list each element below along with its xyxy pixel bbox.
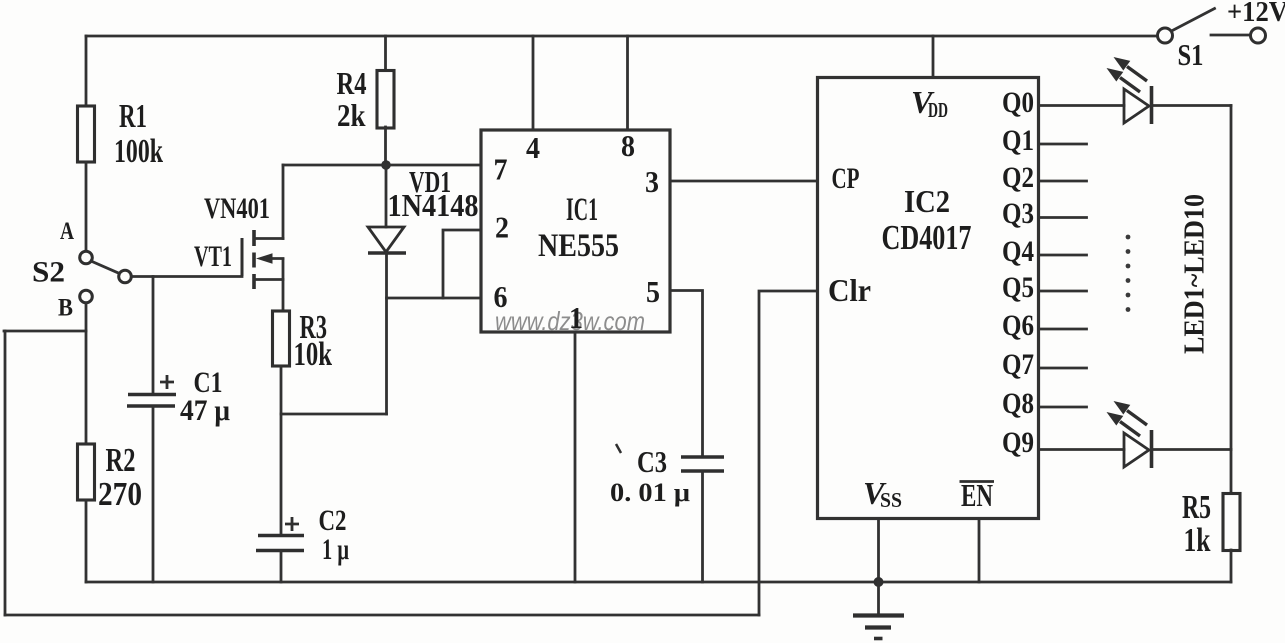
svg-text:Q4: Q4	[1002, 235, 1034, 268]
ground	[877, 582, 880, 614]
svg-text:1N4148: 1N4148	[388, 187, 479, 223]
svg-text:S2: S2	[32, 256, 65, 289]
resistor R4	[377, 71, 394, 129]
svg-text:270: 270	[98, 476, 142, 513]
wire Q4 stub	[1039, 254, 1087, 257]
svg-text:Q0: Q0	[1002, 86, 1034, 119]
wire right rail	[1230, 106, 1233, 450]
wire pin 6 line	[387, 297, 482, 300]
svg-text:R4: R4	[337, 65, 367, 101]
wire R3/VD1 branch	[281, 413, 387, 416]
svg-text:R5: R5	[1182, 489, 1211, 526]
svg-text:R2: R2	[106, 442, 136, 479]
wire R1 top lead	[85, 36, 88, 106]
svg-text:Q6: Q6	[1002, 309, 1034, 342]
wire R4 bottom to node	[384, 127, 387, 165]
wire VSS lead	[877, 519, 880, 583]
node A	[80, 251, 93, 264]
svg-text:2: 2	[495, 210, 509, 245]
switch S2 lever	[91, 261, 120, 274]
wire Clr riser	[759, 291, 818, 615]
wire pin 5 to C3	[670, 291, 703, 458]
LED1	[1107, 57, 1152, 124]
wire LED1 to right rail	[1152, 104, 1232, 107]
wire B branch left	[4, 330, 86, 333]
wire S2 pole to gate	[131, 275, 242, 278]
svg-text:1 μ: 1 μ	[322, 533, 349, 566]
wire R5 bottom	[1230, 550, 1233, 582]
wire top +12V rail	[86, 35, 1157, 38]
wire B stem down	[85, 303, 88, 444]
IC1 NE555 box	[481, 130, 670, 332]
resistor R1	[78, 106, 95, 162]
wire pin 2 stub	[443, 230, 481, 298]
wire ground rail	[86, 581, 1231, 584]
svg-text:DD: DD	[928, 98, 948, 122]
resistor R3	[273, 311, 290, 366]
svg-text:Q2: Q2	[1002, 161, 1034, 194]
wire left rail down	[4, 331, 7, 615]
svg-text:R1: R1	[119, 98, 147, 135]
svg-text:8: 8	[621, 128, 635, 163]
wire pin 7 line	[283, 164, 481, 167]
wire R1 to switch A	[85, 162, 88, 251]
svg-text:2k: 2k	[337, 97, 366, 133]
capacitor C2	[258, 534, 304, 538]
wire pin 4 lead	[532, 36, 535, 130]
svg-text:4: 4	[526, 130, 540, 165]
ellipsis dots	[1126, 235, 1131, 312]
wire Q5 stub	[1039, 290, 1087, 293]
wire EN lead	[978, 519, 981, 583]
svg-text:Q5: Q5	[1002, 271, 1034, 304]
svg-text:Q8: Q8	[1002, 387, 1034, 420]
wire pin 8 lead	[626, 36, 629, 130]
svg-text:SS: SS	[880, 488, 902, 512]
svg-text:100k: 100k	[114, 133, 163, 170]
IC2 CD4017 box	[818, 78, 1039, 519]
resistor R5	[1223, 494, 1240, 551]
node B	[80, 290, 93, 303]
wire LED10 to right rail	[1152, 448, 1232, 451]
gate bar	[241, 238, 244, 276]
svg-text:5: 5	[646, 274, 660, 309]
drain lead	[254, 237, 283, 240]
svg-text:CD4017: CD4017	[882, 218, 972, 257]
wire pin 1 down	[574, 332, 577, 582]
svg-text:B: B	[58, 295, 73, 322]
wire VDD lead	[932, 36, 935, 78]
wire Q0 to LED1	[1039, 104, 1125, 107]
svg-text:A: A	[60, 218, 74, 245]
resistor R2	[78, 444, 95, 500]
wire drain up to pin7 line	[282, 165, 285, 239]
svg-text:47 μ: 47 μ	[180, 394, 230, 427]
source lead	[254, 259, 283, 280]
svg-text:VT1: VT1	[194, 240, 232, 273]
svg-text:IC2: IC2	[904, 183, 950, 219]
wire Q2 stub	[1039, 180, 1087, 183]
wire Q8 stub	[1039, 406, 1087, 409]
svg-text:0. 01 μ: 0. 01 μ	[610, 478, 690, 507]
svg-text:1: 1	[569, 300, 583, 335]
wire Q6 stub	[1039, 328, 1087, 331]
wire R2 bottom to ground rail	[85, 500, 88, 582]
wire R3 bottom column	[280, 366, 283, 535]
svg-text:NE555: NE555	[538, 228, 619, 264]
wire source down to R3	[282, 280, 285, 312]
svg-text:10k: 10k	[294, 336, 333, 373]
svg-text:Clr: Clr	[828, 272, 871, 308]
wire Q3 stub	[1039, 216, 1087, 219]
svg-text:Q7: Q7	[1002, 348, 1034, 381]
wire bottom B rail	[5, 614, 759, 617]
node ground junction	[874, 577, 884, 587]
LED10	[1107, 401, 1152, 468]
capacitor C1	[152, 277, 155, 395]
svg-text:Q9: Q9	[1002, 426, 1034, 459]
node junction R4/VD1/pin7	[381, 160, 391, 170]
svg-text:Q3: Q3	[1002, 197, 1034, 230]
svg-text:VN401: VN401	[204, 192, 270, 225]
wire right rail to R5	[1230, 450, 1233, 495]
wire pin 3 to CP	[670, 180, 818, 183]
svg-text:S1: S1	[1178, 37, 1204, 72]
channel segments	[252, 230, 256, 289]
svg-text:IC1: IC1	[566, 192, 598, 228]
svg-text:LED1~LED10: LED1~LED10	[1180, 194, 1211, 354]
wire Q7 stub	[1039, 367, 1087, 370]
svg-text:CP: CP	[832, 162, 860, 195]
svg-text:+12V: +12V	[1227, 0, 1285, 28]
svg-text:1k: 1k	[1184, 522, 1211, 559]
svg-text:7: 7	[494, 152, 508, 187]
wire R4 top lead	[384, 36, 387, 71]
svg-text:Q1: Q1	[1002, 124, 1034, 157]
switch S1	[1158, 28, 1173, 43]
svg-text:C3: C3	[637, 444, 667, 479]
svg-text:3: 3	[645, 164, 659, 199]
capacitor C3	[681, 455, 724, 459]
body arrow lead	[268, 257, 283, 260]
wire Q1 stub	[1039, 143, 1087, 146]
wire Q9 to LED10	[1039, 448, 1125, 451]
